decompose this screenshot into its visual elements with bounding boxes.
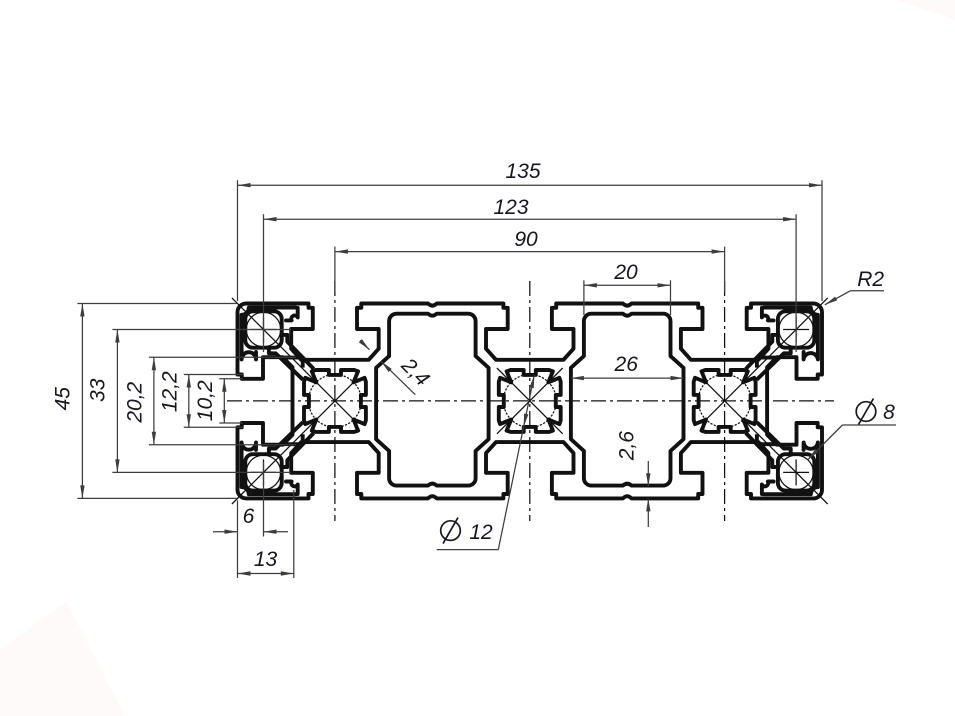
vertical centerline left channel xyxy=(334,281,336,521)
svg-text:13: 13 xyxy=(254,548,278,571)
dimension 26 xyxy=(571,377,684,379)
svg-text:33: 33 xyxy=(87,378,110,402)
dimension 2.6 xyxy=(647,461,649,486)
svg-text:R2: R2 xyxy=(857,268,884,291)
faint background smudge top-right xyxy=(898,0,955,20)
dimension 2.4 xyxy=(360,340,370,350)
dimension 33 xyxy=(112,329,291,331)
dimension 123 xyxy=(263,214,265,352)
faint background smudge bottom-left xyxy=(0,601,125,716)
dimension 90 xyxy=(334,247,336,292)
dimension 45 xyxy=(77,303,236,305)
right large cavity xyxy=(571,314,684,486)
dimension 6 xyxy=(237,500,239,578)
svg-text:20,2: 20,2 xyxy=(124,381,147,423)
bottom-right corner screw boss xyxy=(764,443,818,495)
svg-text:12: 12 xyxy=(469,521,493,544)
horizontal centerline xyxy=(227,400,834,402)
leader diameter 8 xyxy=(842,424,896,426)
svg-text:12,2: 12,2 xyxy=(159,371,182,412)
svg-text:45: 45 xyxy=(52,387,75,411)
right screw channel xyxy=(694,370,756,432)
dimension 135 xyxy=(237,180,239,301)
top-left corner screw boss xyxy=(242,308,296,360)
leader diameter 12 xyxy=(437,549,499,551)
dimension 20 xyxy=(583,280,585,315)
svg-text:20: 20 xyxy=(613,261,638,284)
svg-text:123: 123 xyxy=(493,196,528,219)
svg-text:26: 26 xyxy=(614,353,639,376)
dimension 12.2 xyxy=(184,374,244,376)
middle channel cross diagonals xyxy=(497,368,563,434)
leader R2 xyxy=(851,290,885,292)
svg-text:8: 8 xyxy=(883,401,895,424)
svg-text:2,6: 2,6 xyxy=(616,431,639,462)
svg-text:10,2: 10,2 xyxy=(194,380,217,421)
svg-text:6: 6 xyxy=(243,505,255,528)
profile outer contour with T-slots xyxy=(237,304,822,499)
top-right corner screw boss xyxy=(764,308,818,360)
bottom-left corner screw boss xyxy=(242,443,296,495)
left large cavity xyxy=(376,314,489,486)
vertical centerline right channel xyxy=(724,281,726,521)
left screw channel xyxy=(304,370,366,432)
dimension 20.2 xyxy=(149,356,296,358)
vertical centerline middle channel xyxy=(529,281,531,521)
svg-text:90: 90 xyxy=(514,228,538,251)
dimension 13 xyxy=(293,490,295,578)
dimension 10.2 xyxy=(219,378,242,380)
svg-text:135: 135 xyxy=(505,160,540,183)
middle screw channel xyxy=(499,370,561,432)
